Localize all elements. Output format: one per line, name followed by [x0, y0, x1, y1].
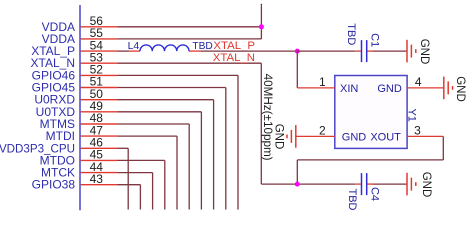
pin 52 GPIO46	[32, 63, 118, 83]
pin 45 MTDO	[40, 148, 118, 168]
wire MTDO (pin 45)	[118, 160, 165, 209]
pin 51 GPIO45	[32, 75, 118, 95]
label GND (C1)	[418, 39, 430, 65]
svg-text:4: 4	[415, 75, 422, 89]
wire XTAL_P (L4 to junction)	[201, 50, 297, 52]
value TBD (C1)	[345, 23, 357, 45]
wire XOUT loop	[297, 136, 443, 184]
svg-text:GND: GND	[342, 132, 367, 144]
pin 56 VDDA	[42, 14, 118, 34]
label Y1	[406, 108, 418, 121]
net label XTAL_P	[213, 40, 255, 52]
wire GPIO38 (pin 43)	[118, 185, 141, 210]
svg-text:MTDI: MTDI	[46, 129, 75, 143]
svg-text:C1: C1	[369, 33, 381, 47]
wire MTCK (pin 44)	[118, 173, 153, 210]
svg-text:1: 1	[319, 75, 326, 89]
wire XTAL_N	[118, 63, 356, 184]
crystal pin 2 GND	[296, 124, 335, 138]
ground GND (pin 4)	[444, 77, 453, 100]
capacitor C1	[355, 40, 373, 62]
svg-text:C4: C4	[368, 187, 380, 201]
label C4	[368, 187, 380, 201]
label GND (pin 2)	[272, 124, 284, 150]
value TBD (C4)	[346, 189, 358, 211]
junction XTAL_P	[295, 49, 300, 54]
inductor L4	[129, 45, 202, 51]
IC body edge	[79, 5, 81, 210]
svg-text:TBD: TBD	[346, 189, 358, 211]
ground GND (pin 2)	[287, 125, 296, 148]
svg-text:XTAL_P: XTAL_P	[213, 40, 255, 52]
wire VDD3P3_CPU (pin 46)	[118, 148, 129, 209]
pin 54 XTAL_P	[31, 38, 117, 58]
pin 43 GPIO38	[32, 172, 118, 192]
pin 55 VDDA	[42, 26, 118, 46]
wire XTAL_P to XIN	[296, 51, 298, 88]
svg-text:XIN: XIN	[340, 83, 358, 95]
svg-text:XTAL_N: XTAL_N	[213, 52, 255, 64]
svg-text:TBD: TBD	[345, 23, 357, 45]
svg-text:XOUT: XOUT	[370, 132, 401, 144]
pin 44 MTCK	[41, 160, 118, 180]
pin 48 MTMS	[40, 111, 118, 131]
ground GND (C1)	[407, 40, 416, 63]
wire C4 to GND	[373, 183, 407, 185]
label GND (C4)	[420, 172, 432, 198]
pin 53 XTAL_N	[31, 50, 118, 70]
wire MTMS (pin 48)	[118, 124, 190, 210]
capacitor C4	[355, 173, 373, 195]
pin 49 U0TXD	[36, 99, 118, 119]
wire U0RXD (pin 50)	[118, 100, 214, 210]
label L4	[128, 40, 140, 52]
svg-text:GPIO38: GPIO38	[32, 178, 76, 192]
svg-text:3: 3	[414, 124, 421, 138]
label C1	[369, 33, 381, 47]
pin 46 VDD3P3_CPU	[0, 136, 118, 156]
net label XTAL_N	[213, 52, 255, 64]
ground GND (C4)	[407, 173, 416, 196]
note 40MHz(±10ppm)	[261, 74, 274, 161]
svg-text:40MHz(±10ppm): 40MHz(±10ppm)	[261, 74, 274, 161]
svg-text:Y1: Y1	[406, 108, 418, 121]
svg-text:GND: GND	[420, 172, 432, 198]
svg-text:2: 2	[319, 124, 326, 138]
crystal pin 4 GND	[407, 75, 444, 89]
wire C1 to GND	[373, 50, 407, 52]
svg-text:GND: GND	[272, 124, 284, 150]
wire XTAL_P (pin to L4)	[118, 50, 129, 52]
crystal pin 3 XOUT	[407, 124, 443, 138]
wire MTDI (pin 47)	[118, 136, 178, 209]
svg-text:GND: GND	[418, 39, 430, 65]
junction XTAL_N / XOUT / C4	[295, 182, 300, 187]
wire GPIO45 (pin 51)	[118, 88, 226, 210]
svg-text:L4: L4	[128, 40, 140, 52]
wire GPIO46 (pin 52)	[118, 75, 239, 209]
label GND (pin 4)	[454, 76, 466, 102]
wire VDDA net	[118, 4, 262, 39]
wire XTAL_P to C1	[297, 50, 355, 52]
crystal pin 1 XIN	[297, 75, 335, 89]
wire U0TXD (pin 49)	[118, 112, 202, 210]
value TBD (L4)	[192, 41, 212, 52]
svg-text:GND: GND	[454, 76, 466, 102]
svg-text:43: 43	[90, 172, 104, 186]
pin 47 MTDI	[46, 123, 118, 143]
pin 50 U0RXD	[34, 87, 117, 107]
junction VDDA	[259, 24, 264, 29]
crystal Y1 body	[335, 76, 407, 149]
svg-text:GND: GND	[377, 83, 402, 95]
